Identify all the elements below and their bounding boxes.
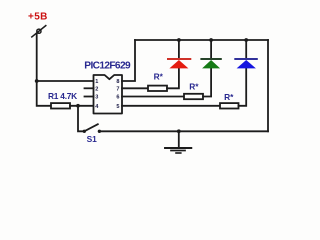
svg-text:3: 3 — [95, 95, 98, 101]
resistor R* (green LED) body — [184, 94, 203, 99]
wire pin6 to resistor R* green — [122, 96, 184, 98]
resistor R* (red LED) body — [148, 86, 167, 91]
node GND junction dot — [177, 129, 181, 133]
svg-text:6: 6 — [116, 95, 119, 101]
svg-text:PIC12F629: PIC12F629 — [84, 61, 131, 72]
wire node A down to R1 left lead — [37, 81, 51, 106]
wire resistor to blue LED anode — [239, 68, 247, 105]
wire resistor to red LED anode — [167, 68, 179, 88]
wire R1 right lead to node B and IC pin4 — [70, 105, 94, 107]
wire green LED cathode to rail — [210, 40, 212, 59]
wire resistor to green LED anode — [203, 68, 211, 96]
wire top LED rail — [135, 39, 268, 41]
resistor R* (blue LED) body — [220, 103, 239, 108]
node B junction dot — [76, 104, 80, 108]
LED D2 green — [200, 59, 221, 68]
node A junction dot — [35, 79, 39, 83]
LED D3 blue — [234, 59, 257, 68]
wire pin8 up to LED rail — [122, 40, 135, 81]
svg-text:1: 1 — [95, 79, 98, 85]
switch S1 — [83, 124, 102, 133]
svg-text:5: 5 — [116, 104, 119, 110]
svg-text:2: 2 — [95, 87, 98, 93]
LED D1 red — [167, 59, 191, 68]
wire bottom ground rail — [99, 130, 268, 132]
svg-text:8: 8 — [116, 79, 119, 85]
IC pin numbers — [95, 79, 119, 110]
svg-text:R*: R* — [224, 92, 234, 102]
wire rail right side down to ground rail — [267, 40, 269, 131]
ground — [165, 148, 191, 153]
wire red LED cathode to rail — [178, 40, 180, 59]
svg-text:R*: R* — [189, 82, 199, 92]
svg-text:7: 7 — [116, 87, 119, 93]
svg-text:S1: S1 — [87, 134, 98, 144]
wire down to ground symbol — [178, 131, 180, 147]
wire pin7 to resistor R* red — [122, 87, 148, 89]
svg-text:R1 4.7K: R1 4.7K — [48, 91, 77, 101]
resistor R1 body — [51, 103, 70, 108]
wire blue LED cathode to rail — [245, 40, 247, 59]
node rail dot red — [177, 38, 181, 42]
pin 2 stub — [85, 87, 94, 89]
IC U1 PIC12F629 body — [94, 75, 123, 114]
wire pin5 to resistor R* blue — [122, 105, 220, 107]
svg-text:+5В: +5В — [28, 12, 48, 23]
node rail dot blue — [244, 38, 248, 42]
pin 3 stub — [85, 96, 94, 98]
wire node A to IC pin1 — [37, 80, 94, 82]
node rail dot green — [209, 38, 213, 42]
svg-text:R*: R* — [154, 72, 164, 82]
wire node B down to switch S1 — [78, 106, 83, 132]
power terminal +5V symbol — [32, 26, 46, 37]
wire +5V vertical down to node A — [36, 34, 38, 81]
